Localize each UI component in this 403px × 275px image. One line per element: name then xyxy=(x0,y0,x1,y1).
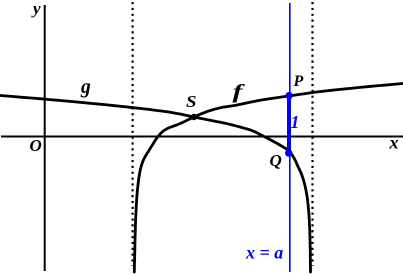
svg-text:x = a: x = a xyxy=(245,243,283,263)
left dotted asymptote xyxy=(132,2,134,266)
svg-text:S: S xyxy=(186,92,197,111)
point P marker xyxy=(285,92,292,99)
x-axis xyxy=(1,136,403,138)
svg-text:O: O xyxy=(30,136,42,155)
svg-text:P: P xyxy=(293,73,304,90)
y-axis xyxy=(44,5,46,271)
svg-text:f: f xyxy=(233,81,246,103)
svg-text:y: y xyxy=(31,0,41,18)
right dotted asymptote xyxy=(311,2,313,266)
point Q marker xyxy=(285,149,292,156)
curve g xyxy=(0,96,311,273)
svg-text:x: x xyxy=(389,132,399,152)
blue vertical line x=a xyxy=(289,3,291,272)
svg-text:Q: Q xyxy=(270,151,282,170)
svg-text:g: g xyxy=(80,77,91,98)
intersection dot S xyxy=(191,114,197,120)
curve f xyxy=(134,84,403,273)
svg-text:1: 1 xyxy=(291,112,300,132)
blue unit segment PQ xyxy=(287,96,291,152)
